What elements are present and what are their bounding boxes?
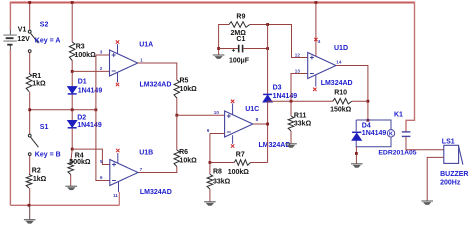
- svg-text:C1: C1: [236, 36, 245, 43]
- svg-text:6: 6: [100, 175, 103, 180]
- svg-text:100kΩ: 100kΩ: [228, 169, 250, 176]
- wire contact to buzzer: [406, 137, 444, 150]
- wire R4 to ground: [70, 175, 72, 187]
- wire U1D output to relay: [336, 66, 368, 121]
- resistor R7 100kΩ: [234, 160, 250, 166]
- wire R8 to ground: [209, 189, 211, 202]
- svg-text:K1: K1: [394, 112, 403, 119]
- svg-text:1kΩ: 1kΩ: [32, 81, 46, 88]
- svg-text:EDR201A05: EDR201A05: [378, 150, 416, 157]
- wire U1B pin11 to ground bus: [118, 182, 120, 192]
- svg-text:D2: D2: [77, 115, 86, 122]
- wire buzzer pin2 to ground: [427, 157, 444, 201]
- node top rail / S2 branch: [28, 1, 31, 4]
- svg-text:Key = A: Key = A: [35, 38, 61, 45]
- node bus/D1: [71, 108, 74, 111]
- svg-text:500kΩ: 500kΩ: [69, 159, 91, 166]
- wire bottom ground bus: [10, 204, 119, 206]
- resistor R2 1kΩ: [26, 174, 32, 188]
- svg-text:1N4149: 1N4149: [77, 122, 102, 129]
- svg-text:9: 9: [207, 128, 210, 133]
- wire R9/C1 left to ground: [219, 25, 229, 56]
- resistor R3 100kΩ: [69, 42, 75, 61]
- relay contact K1: [402, 131, 411, 133]
- diode D1 1N4149: [68, 87, 77, 94]
- wire R7 to U1C output vertical: [251, 162, 268, 164]
- wire U1C output: [253, 123, 268, 125]
- node bus/reference vertical: [95, 108, 98, 111]
- switch S1: [28, 134, 31, 137]
- wire node to R7: [210, 162, 234, 164]
- wire C1 right: [243, 48, 267, 50]
- wire node to R11: [290, 101, 292, 116]
- wire reference vertical U1A+ to U1B-: [96, 55, 110, 181]
- op-amp U1C LM324AD: [225, 111, 253, 137]
- svg-text:D4: D4: [362, 123, 371, 130]
- svg-text:5: 5: [100, 159, 103, 164]
- svg-text:K: K: [389, 132, 393, 138]
- wire R6 to U1B output: [138, 167, 177, 173]
- ground (R8): [204, 201, 216, 203]
- wire R5 to summing node: [176, 98, 178, 115]
- battery V1 12V: [9, 30, 11, 50]
- svg-text:S2: S2: [40, 21, 49, 28]
- wire coil bottom to ground: [355, 147, 357, 154]
- wire R11 to ground: [290, 131, 292, 144]
- svg-text:LM324AD: LM324AD: [140, 189, 172, 196]
- svg-text:4: 4: [318, 39, 321, 44]
- svg-text:2: 2: [100, 66, 103, 71]
- node R10 right: [367, 100, 370, 103]
- svg-text:BUZZER: BUZZER: [440, 171, 468, 178]
- node C1 right / D3 vertical: [266, 47, 269, 50]
- svg-text:R7: R7: [236, 152, 245, 159]
- resistor R5 10kΩ: [174, 80, 180, 98]
- wire R3 to D1: [71, 61, 73, 87]
- svg-text:1kΩ: 1kΩ: [33, 176, 47, 183]
- svg-text:150kΩ: 150kΩ: [330, 107, 352, 114]
- svg-text:R1: R1: [32, 73, 41, 80]
- resistor R1 1kΩ: [26, 74, 32, 92]
- svg-text:D1: D1: [78, 79, 87, 86]
- op-amp U1B LM324AD: [110, 160, 138, 186]
- wire +12V rail to U1D power pin 4: [315, 1, 318, 4]
- switch S2: [28, 30, 31, 33]
- power pin x marks U1A: [116, 40, 119, 43]
- wire to U1A inverting input: [72, 70, 109, 72]
- svg-text:200Hz: 200Hz: [440, 179, 461, 186]
- wire U1A + input: [96, 54, 110, 56]
- node bus/R1R2: [28, 108, 31, 111]
- ground (buzzer): [421, 200, 433, 202]
- svg-text:1N4149: 1N4149: [273, 93, 298, 100]
- wire summing node to U1C+: [177, 114, 225, 116]
- power pin x marks U1C: [231, 100, 234, 103]
- svg-text:12V: 12V: [17, 36, 30, 43]
- wire D2 to R4 node: [71, 128, 73, 149]
- svg-text:D3: D3: [273, 84, 282, 91]
- wire D3 anode to R10/U1D-: [268, 100, 333, 102]
- ground (R4): [66, 185, 78, 187]
- svg-text:7: 7: [140, 167, 143, 172]
- op-amp U1A LM324AD: [110, 50, 138, 76]
- wire right rail to relay contact: [406, 2, 415, 132]
- svg-text:LS1: LS1: [442, 138, 455, 145]
- wire U1D inverting input: [291, 74, 308, 102]
- ground (relay): [351, 163, 363, 165]
- svg-text:100µF: 100µF: [229, 57, 250, 64]
- diode D3 1N4149: [263, 93, 272, 95]
- resistor R10 150kΩ: [333, 98, 352, 104]
- node R9/C1/D3 vertical: [266, 23, 269, 26]
- svg-text:U1D: U1D: [334, 45, 348, 52]
- node D3 vertical / U1C out: [266, 123, 269, 126]
- svg-text:10kΩ: 10kΩ: [180, 157, 198, 164]
- node R2/ground bus: [28, 204, 31, 207]
- node C1 left: [217, 47, 220, 50]
- wire U1C inverting input: [210, 133, 225, 135]
- node D2/R4/U1B+: [71, 148, 74, 151]
- wire bus to D2: [71, 110, 73, 121]
- ground (R11): [285, 143, 297, 145]
- wire node to R8: [209, 163, 211, 175]
- svg-text:R2: R2: [32, 167, 41, 174]
- svg-text:14: 14: [336, 60, 342, 65]
- svg-text:U1C: U1C: [245, 106, 259, 113]
- wire D1 to divider bus: [71, 95, 73, 110]
- wire S1 to R2: [29, 156, 31, 175]
- wire R10 right lead: [352, 100, 368, 102]
- node top rail / R3 branch: [71, 1, 74, 4]
- capacitor C1 100µF: [219, 48, 238, 50]
- svg-text:U1B: U1B: [139, 149, 153, 156]
- wire left rail (battery branch): [9, 2, 11, 31]
- wire R2 to ground bus: [29, 188, 31, 205]
- svg-text:U1A: U1A: [139, 42, 153, 49]
- node R3/D1/U1A-: [71, 70, 74, 73]
- svg-text:13: 13: [295, 69, 301, 74]
- node R5/R6/U1C+: [175, 114, 178, 117]
- svg-text:11: 11: [113, 193, 118, 198]
- svg-text:33kΩ: 33kΩ: [294, 121, 312, 128]
- resistor R9 2MΩ: [229, 22, 250, 28]
- wire R9 right to U1D+: [250, 25, 308, 58]
- wire D3 cathode vertical: [267, 25, 269, 95]
- resistor R4 500kΩ: [68, 160, 74, 175]
- node R7/R8/U1C-: [209, 161, 212, 164]
- wire U1A output: [138, 63, 177, 80]
- svg-text:12: 12: [295, 53, 301, 58]
- svg-text:S1: S1: [40, 124, 49, 131]
- node U1D-/R11: [290, 100, 293, 103]
- diode D4 1N4149 (across coil): [352, 133, 361, 140]
- wire divider bus: [30, 109, 96, 111]
- svg-text:8: 8: [256, 117, 259, 122]
- resistor R11 33kΩ: [288, 116, 294, 131]
- wire S2 to R1: [29, 53, 31, 74]
- svg-text:LM324AD: LM324AD: [321, 80, 353, 87]
- wire +12V top rail: [10, 2, 414, 4]
- wire R1 to divider node and S1: [29, 92, 31, 135]
- wire top rail to R3: [71, 3, 73, 43]
- wire node to R4: [71, 149, 72, 160]
- svg-text:10: 10: [214, 110, 220, 115]
- node coil ground: [355, 152, 358, 155]
- ground (C1): [213, 54, 225, 56]
- svg-text:R5: R5: [180, 78, 189, 85]
- svg-text:1: 1: [140, 58, 143, 63]
- svg-text:Key = B: Key = B: [35, 151, 61, 158]
- op-amp U1D LM324AD: [308, 53, 336, 79]
- svg-text:10kΩ: 10kΩ: [180, 86, 198, 93]
- power pin x mark U1B top: [116, 149, 119, 152]
- diode D2 1N4149: [68, 121, 77, 128]
- wire D3 anode to U1C out / R7: [267, 102, 269, 163]
- svg-text:R3: R3: [76, 44, 85, 51]
- relay K1 coil EDR201A05: [356, 120, 391, 147]
- svg-text:R6: R6: [179, 149, 188, 156]
- svg-text:LM324AD: LM324AD: [259, 142, 291, 149]
- buzzer LS1 200Hz: [444, 145, 459, 163]
- svg-text:V1: V1: [18, 26, 27, 33]
- svg-text:R8: R8: [213, 169, 222, 176]
- ground (main): [29, 205, 31, 219]
- power pin x mark U1D bottom: [313, 88, 316, 91]
- wire node to R6: [176, 115, 178, 150]
- svg-text:LM324AD: LM324AD: [140, 81, 172, 88]
- svg-text:100kΩ: 100kΩ: [75, 52, 97, 59]
- svg-text:1N4149: 1N4149: [362, 130, 387, 137]
- resistor R8 33kΩ: [207, 174, 213, 189]
- svg-text:R10: R10: [334, 90, 347, 97]
- svg-text:3: 3: [100, 50, 103, 55]
- svg-text:33kΩ: 33kΩ: [213, 178, 231, 185]
- resistor R6 10kΩ: [174, 150, 180, 167]
- svg-text:R11: R11: [294, 112, 307, 119]
- wire D2/R4 node to U1B+: [72, 149, 110, 164]
- node coil top: [367, 119, 370, 122]
- svg-text:1N4149: 1N4149: [78, 88, 103, 95]
- wire top rail to S2: [29, 3, 31, 31]
- svg-text:R9: R9: [236, 14, 245, 21]
